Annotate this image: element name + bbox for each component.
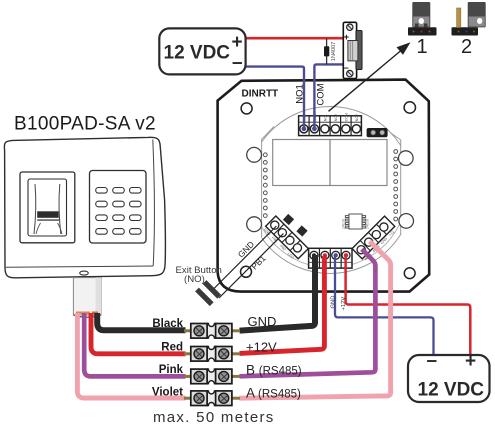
board-side wire A RS485 (pink) — [240, 241, 391, 398]
12 VDC supply (top) — [159, 28, 245, 74]
electric lock strike — [343, 22, 362, 78]
exit button terminal block (diagonal) — [262, 216, 308, 262]
wire color labels — [152, 318, 184, 399]
board-side wire +12V (red) — [240, 256, 325, 353]
svg-text:24C08: 24C08 — [365, 219, 369, 229]
svg-text:B (RS485): B (RS485) — [246, 363, 302, 378]
jumper photo 1 — [408, 2, 437, 36]
plate screw hole BL — [241, 266, 252, 277]
svg-text:+12V: +12V — [246, 340, 277, 355]
svg-text:1: 1 — [417, 36, 428, 58]
svg-text:B100PAD-SA v2: B100PAD-SA v2 — [14, 114, 156, 135]
pad column left — [263, 153, 267, 218]
svg-text:+: + — [465, 351, 476, 372]
svg-text:GND: GND — [248, 314, 277, 329]
cable wires: pink(purple) — [84, 313, 185, 376]
12 VDC supply (bottom) — [408, 351, 490, 403]
plate screw hole BR — [404, 268, 415, 279]
svg-text:(NO): (NO) — [184, 274, 205, 285]
bottom terminal block — [309, 248, 352, 268]
svg-text:Black: Black — [152, 318, 183, 330]
svg-text:12 VDC: 12 VDC — [418, 380, 485, 401]
PCB hole right upper — [399, 151, 414, 166]
svg-text:2: 2 — [461, 36, 472, 58]
svg-text:NC1: NC1 — [323, 114, 327, 121]
round PCB — [247, 107, 414, 274]
svg-text:max. 50 meters: max. 50 meters — [153, 409, 275, 424]
signal labels GND +12V B A — [246, 314, 302, 401]
cable wires: violet — [77, 313, 185, 398]
svg-text:+12V: +12V — [341, 297, 347, 311]
wire GND to PSU2 (blue thin) — [335, 256, 434, 355]
svg-text:–: – — [344, 62, 349, 72]
exit button symbol — [205, 282, 220, 297]
svg-text:COM: COM — [316, 83, 327, 105]
plate screw hole TR — [404, 102, 415, 113]
relay K1 — [273, 140, 387, 186]
svg-text:DINRTT: DINRTT — [242, 89, 279, 100]
exit button wires — [212, 226, 276, 291]
cable wires: red — [91, 313, 186, 354]
wire lock- to COM (blue) — [314, 64, 343, 128]
jumper photo 2 — [452, 2, 486, 36]
NO1 COM terminal dots — [302, 126, 307, 131]
svg-text:GND: GND — [331, 296, 337, 309]
inline connectors — [152, 314, 302, 406]
svg-text:Red: Red — [161, 342, 183, 354]
svg-text:24C08: 24C08 — [341, 219, 345, 229]
svg-text:Violet: Violet — [152, 387, 183, 399]
wire +12V to PSU2 (red thin) — [346, 256, 471, 355]
reader device body — [4, 137, 165, 277]
svg-text:COM: COM — [344, 113, 348, 121]
PCB hole right lower — [399, 214, 414, 229]
keypad — [90, 171, 147, 244]
svg-text:A (RS485): A (RS485) — [246, 386, 301, 401]
IC U1 (EEPROM) — [345, 214, 365, 229]
svg-text:+: + — [344, 32, 349, 42]
cable wires: black — [97, 313, 185, 330]
wire 12VDC+ to lock (red) — [246, 37, 344, 40]
svg-text:NO1: NO1 — [295, 84, 306, 104]
terminal dots — [312, 253, 316, 257]
controller board plate (octagon) — [218, 80, 430, 292]
inline connector row 1 (Black/GND) then rows 2-4 — [184, 324, 240, 406]
svg-text:12 VDC: 12 VDC — [164, 43, 231, 64]
fingerprint window — [20, 172, 75, 243]
svg-text:1N4007: 1N4007 — [331, 42, 337, 62]
smd diamond pads — [283, 214, 294, 225]
svg-text:–: – — [427, 351, 438, 372]
svg-text:NC2: NC2 — [355, 114, 359, 121]
jumper header JP1 on PCB — [367, 128, 388, 137]
top terminal block (relay outputs) — [299, 116, 362, 136]
svg-text:+: + — [232, 32, 243, 53]
cable gland — [73, 278, 101, 318]
inner silkscreen arc — [261, 225, 399, 268]
arrow to jumpers — [329, 51, 402, 112]
PCB hole left lower — [247, 217, 262, 232]
board-side wire GND (black) — [240, 255, 316, 331]
board-side wire B RS485 (purple) — [240, 249, 376, 376]
RS485 terminal block (diagonal) — [352, 216, 398, 262]
bottom oval — [80, 271, 89, 275]
wire 12VDC- to NO1 (blue) — [246, 67, 304, 128]
diode 1N4007 — [326, 38, 328, 64]
svg-text:–: – — [232, 53, 243, 74]
plate screw hole TL — [241, 103, 252, 114]
pad column right — [394, 150, 398, 221]
svg-text:Pink: Pink — [159, 364, 184, 376]
tiny terminal labels — [302, 113, 359, 121]
svg-text:NO2: NO2 — [334, 114, 338, 121]
PCB hole left upper — [247, 147, 262, 162]
